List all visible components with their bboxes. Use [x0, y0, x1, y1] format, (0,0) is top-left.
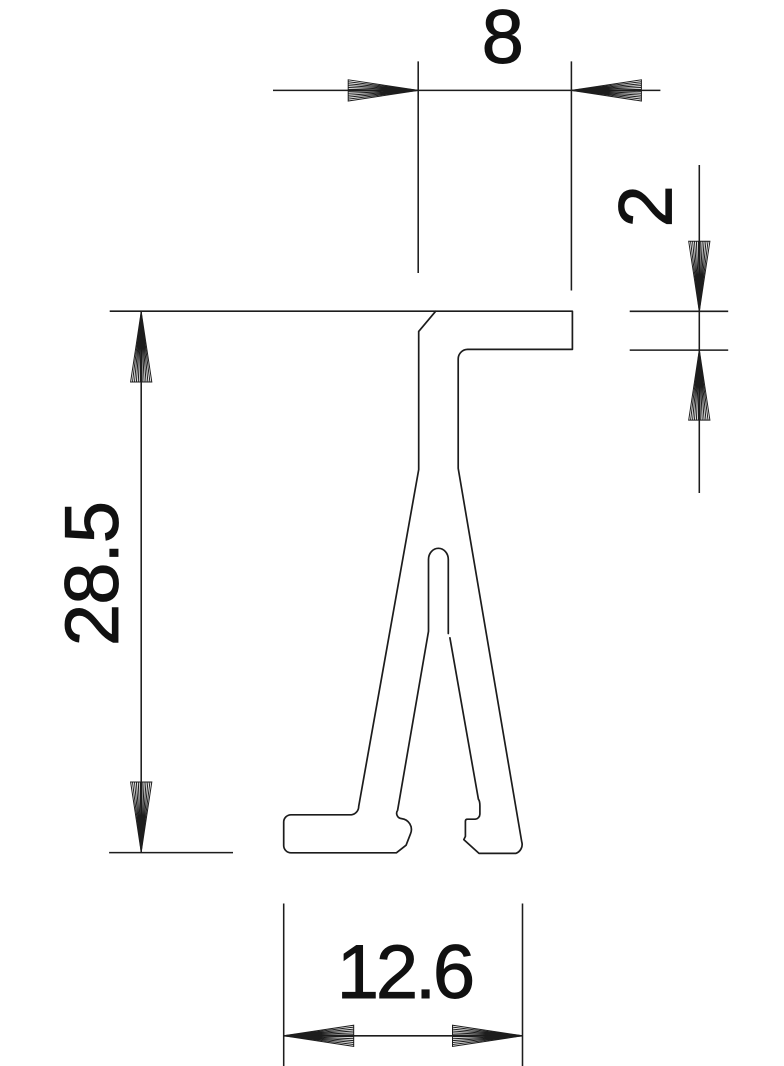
- dim28.5 arrow up: [131, 312, 152, 382]
- dim12.6 arrow right: [453, 1025, 523, 1046]
- dim2 arrow up to bottom line: [689, 350, 710, 420]
- dim28.5 extension line top: [110, 310, 436, 312]
- dim2 object line top: [630, 310, 729, 312]
- dim28.5 extension line bottom: [109, 852, 233, 854]
- dim12.6 extension line left: [283, 904, 285, 1066]
- dim2 arrow down to top line: [689, 241, 710, 311]
- svg-text:12.6: 12.6: [337, 930, 475, 1015]
- svg-text:8: 8: [482, 0, 524, 80]
- dim8 extension line right: [570, 61, 572, 290]
- dim12.6 arrow left: [284, 1025, 354, 1046]
- dim12.6 extension line right: [522, 904, 524, 1066]
- svg-text:2: 2: [603, 185, 688, 227]
- dim28.5 dimension line: [140, 311, 142, 852]
- dim8 arrow left: [348, 80, 418, 101]
- dim8 arrow right: [571, 80, 641, 101]
- dim8 extension line left: [417, 61, 419, 273]
- dim8 dimension line: [273, 89, 660, 91]
- dim12.6 dimension line: [284, 1035, 523, 1037]
- dim2 dimension line: [698, 165, 700, 493]
- dim28.5 arrow down: [131, 782, 152, 852]
- svg-text:28.5: 28.5: [50, 501, 135, 646]
- profile outline: [284, 311, 573, 853]
- dim2 object line bottom: [630, 349, 729, 351]
